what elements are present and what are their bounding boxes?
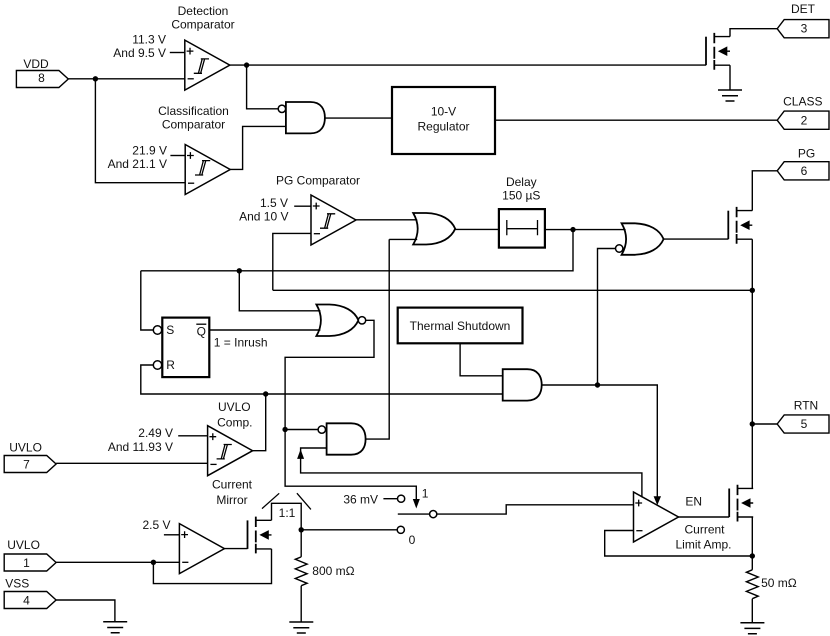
latch SR	[162, 318, 209, 378]
wire NOR2 output feedback	[285, 320, 416, 502]
svg-text:1 = Inrush: 1 = Inrush	[214, 336, 268, 350]
svg-text:1: 1	[23, 556, 30, 570]
pin PG 6	[777, 162, 829, 180]
wire threshold to + input	[178, 435, 207, 437]
svg-text:2: 2	[801, 113, 808, 127]
gate NOR1 with inverted input	[622, 223, 664, 255]
wire mirror node to switch contact 0	[301, 529, 397, 531]
wire detection output down to NAND input	[247, 65, 279, 109]
node rail to NOR2	[237, 268, 242, 273]
pin DET 3	[777, 20, 829, 38]
wire mirror source feedback	[153, 549, 271, 584]
wire R input from rail 394	[141, 365, 503, 394]
svg-text:Regulator: Regulator	[417, 119, 469, 133]
node feedback sense	[750, 553, 755, 558]
wire 36mV to contact 1	[383, 498, 397, 500]
svg-text:Classification: Classification	[158, 104, 229, 118]
svg-text:Comparator: Comparator	[171, 17, 234, 31]
wire switch pole to amp + input	[437, 505, 634, 514]
resistor 800 mOhm	[295, 530, 307, 622]
svg-text:DET: DET	[791, 2, 816, 16]
svg-text:10-V: 10-V	[431, 105, 456, 119]
node AND output	[595, 382, 600, 387]
svg-text:0: 0	[409, 533, 416, 547]
node mirror output	[299, 527, 304, 532]
gate NAND2 with inverted input	[327, 423, 366, 454]
svg-text:UVLO: UVLO	[218, 400, 251, 414]
wire pin 1 to - input	[56, 561, 179, 563]
switch blade and pole	[398, 513, 430, 515]
svg-text:6: 6	[801, 164, 808, 178]
wire RTN node to pin	[752, 423, 777, 425]
svg-text:11.3 V: 11.3 V	[132, 33, 166, 47]
wire NOR1 inverted input from AND output node	[598, 249, 616, 386]
svg-text:Mirror: Mirror	[216, 493, 247, 507]
switch contact 1	[398, 495, 405, 502]
svg-text:150 µS: 150 µS	[502, 189, 540, 203]
transistor DET MOSFET	[706, 33, 730, 70]
wire PG comp output to OR gate	[356, 219, 417, 221]
wire NAND2 lower input with up arrow from enable rail	[301, 448, 642, 497]
wire PG pin to drain	[752, 171, 777, 211]
svg-text:50 mΩ: 50 mΩ	[761, 576, 797, 590]
wire threshold to + input	[294, 205, 311, 207]
pin UVLO 7	[4, 456, 56, 473]
wire DET source to ground	[729, 65, 731, 90]
transistor PG MOSFET	[728, 207, 752, 244]
wire OR output to delay	[455, 228, 499, 230]
wire amp output to CL MOSFET gate	[678, 516, 729, 518]
wire VDD to detection comparator	[68, 78, 185, 80]
svg-text:And 10 V: And 10 V	[239, 210, 288, 224]
svg-text:PG Comparator: PG Comparator	[276, 174, 360, 188]
gate U1 AND with inverted input	[286, 102, 325, 133]
node VDD split	[93, 76, 98, 81]
wire UVLO comp output up to rail	[252, 394, 265, 451]
svg-text:800 mΩ: 800 mΩ	[312, 564, 354, 578]
svg-text:Current: Current	[212, 478, 253, 492]
svg-text:1: 1	[422, 486, 429, 500]
svg-text:Q: Q	[197, 324, 206, 338]
wire AND output to current limit amp	[542, 385, 658, 498]
wire NOR1 output to PG MOSFET gate	[664, 238, 729, 240]
svg-text:And 21.1 V: And 21.1 V	[108, 157, 167, 171]
wire 2.5V to + input	[164, 534, 180, 536]
arrow down into amp	[654, 496, 661, 505]
resistor 50 mOhm	[746, 570, 758, 623]
node RTN pin	[750, 421, 755, 426]
svg-text:VDD: VDD	[23, 57, 49, 71]
node detection output	[244, 62, 249, 67]
op-amp current mirror amp	[179, 524, 224, 574]
wire PG source down to RTN node and CL drain	[751, 239, 753, 488]
pin VDD 8	[16, 71, 68, 88]
pin UVLO 1	[4, 554, 56, 571]
node UVLO pin 1	[151, 560, 156, 565]
svg-text:36 mV: 36 mV	[343, 493, 378, 507]
svg-text:Delay: Delay	[506, 175, 537, 189]
svg-text:R: R	[166, 358, 175, 372]
wire delay node down to inrush rail	[141, 230, 573, 271]
svg-text:And 9.5 V: And 9.5 V	[113, 46, 166, 60]
gate NOR2	[316, 305, 358, 337]
wire NAND out to regulator	[325, 117, 392, 119]
wire amp output to mirror FET gate	[224, 548, 247, 550]
current mirror hat	[272, 503, 302, 530]
wire DET drain to pin	[730, 29, 777, 37]
node NAND2 input tee	[282, 427, 287, 432]
wire VDD down to classification comparator	[95, 79, 185, 183]
svg-text:8: 8	[38, 71, 45, 85]
node UVLO comp output joins rail	[263, 391, 268, 396]
svg-text:UVLO: UVLO	[9, 440, 42, 454]
wire regulator to CLASS pin	[495, 119, 777, 121]
svg-text:3: 3	[801, 22, 808, 36]
wire Q out to NOR2	[210, 329, 321, 331]
svg-text:Comparator: Comparator	[162, 118, 225, 132]
svg-text:4: 4	[23, 593, 30, 607]
wire VSS to ground	[56, 600, 115, 622]
svg-text:Thermal Shutdown: Thermal Shutdown	[410, 319, 511, 333]
pin VSS 4	[4, 592, 56, 609]
svg-text:PG: PG	[798, 147, 815, 161]
svg-text:5: 5	[801, 417, 808, 431]
svg-text:Comp.: Comp.	[217, 416, 252, 430]
ground 50mOhm	[740, 623, 764, 634]
wire classification output up to NAND lower input	[230, 126, 286, 169]
node delay output	[570, 227, 575, 232]
wire PG comp - input from RTN rail	[273, 233, 311, 290]
transistor current limit MOSFET	[729, 485, 753, 522]
svg-text:2.5 V: 2.5 V	[142, 518, 170, 532]
svg-text:Limit Amp.: Limit Amp.	[675, 537, 731, 551]
svg-text:RTN: RTN	[794, 398, 818, 412]
wire RTN sense rail	[273, 289, 753, 291]
svg-text:2.49 V: 2.49 V	[138, 426, 173, 440]
svg-text:EN: EN	[685, 494, 702, 508]
wire amp - feedback	[605, 531, 753, 557]
svg-text:CLASS: CLASS	[783, 95, 822, 109]
svg-text:And 11.93 V: And 11.93 V	[108, 440, 173, 454]
ground DET	[718, 90, 742, 101]
svg-text:VSS: VSS	[5, 576, 29, 590]
block Thermal Shutdown	[398, 308, 523, 344]
svg-text:UVLO: UVLO	[7, 538, 40, 552]
svg-text:1:1: 1:1	[279, 506, 296, 520]
gate AND	[503, 369, 542, 400]
wire CL source down	[751, 517, 753, 570]
svg-text:S: S	[166, 323, 174, 337]
wire detection output to DET MOSFET gate	[230, 64, 706, 66]
op-amp UVLO comparator	[208, 426, 253, 476]
node RTN rail	[750, 288, 755, 293]
wire rail down to S input	[141, 271, 154, 330]
svg-text:7: 7	[23, 458, 30, 472]
block 10-V Regulator	[392, 87, 495, 154]
wire delay output to NOR1	[545, 229, 626, 231]
gate OR	[413, 213, 455, 245]
ground VSS	[103, 622, 127, 633]
wire to NAND2 inverted input	[285, 429, 318, 431]
switch contact 0	[397, 526, 404, 533]
svg-text:Current: Current	[684, 523, 725, 537]
wire pin 7 to - input	[56, 462, 208, 464]
pin RTN 5	[777, 415, 829, 433]
svg-text:1.5 V: 1.5 V	[260, 196, 288, 210]
arrow up into NAND2 input	[297, 449, 304, 459]
wire NAND2 output up to OR input	[366, 239, 390, 439]
pin CLASS 2	[777, 111, 829, 129]
svg-text:21.9 V: 21.9 V	[132, 144, 167, 158]
wire threshold to + input	[170, 155, 185, 157]
transistor current mirror MOSFET	[248, 517, 272, 554]
wire OR lower input from NAND below	[389, 238, 417, 240]
arrow down to switch position 1	[413, 499, 420, 509]
op-amp current limit amp	[634, 492, 679, 542]
wire rail down to NOR2 top input	[239, 271, 320, 311]
svg-text:Detection: Detection	[178, 4, 229, 18]
wire TS to AND top input	[460, 343, 503, 376]
ground 800mOhm	[289, 622, 313, 633]
wire threshold to + input	[170, 52, 185, 54]
